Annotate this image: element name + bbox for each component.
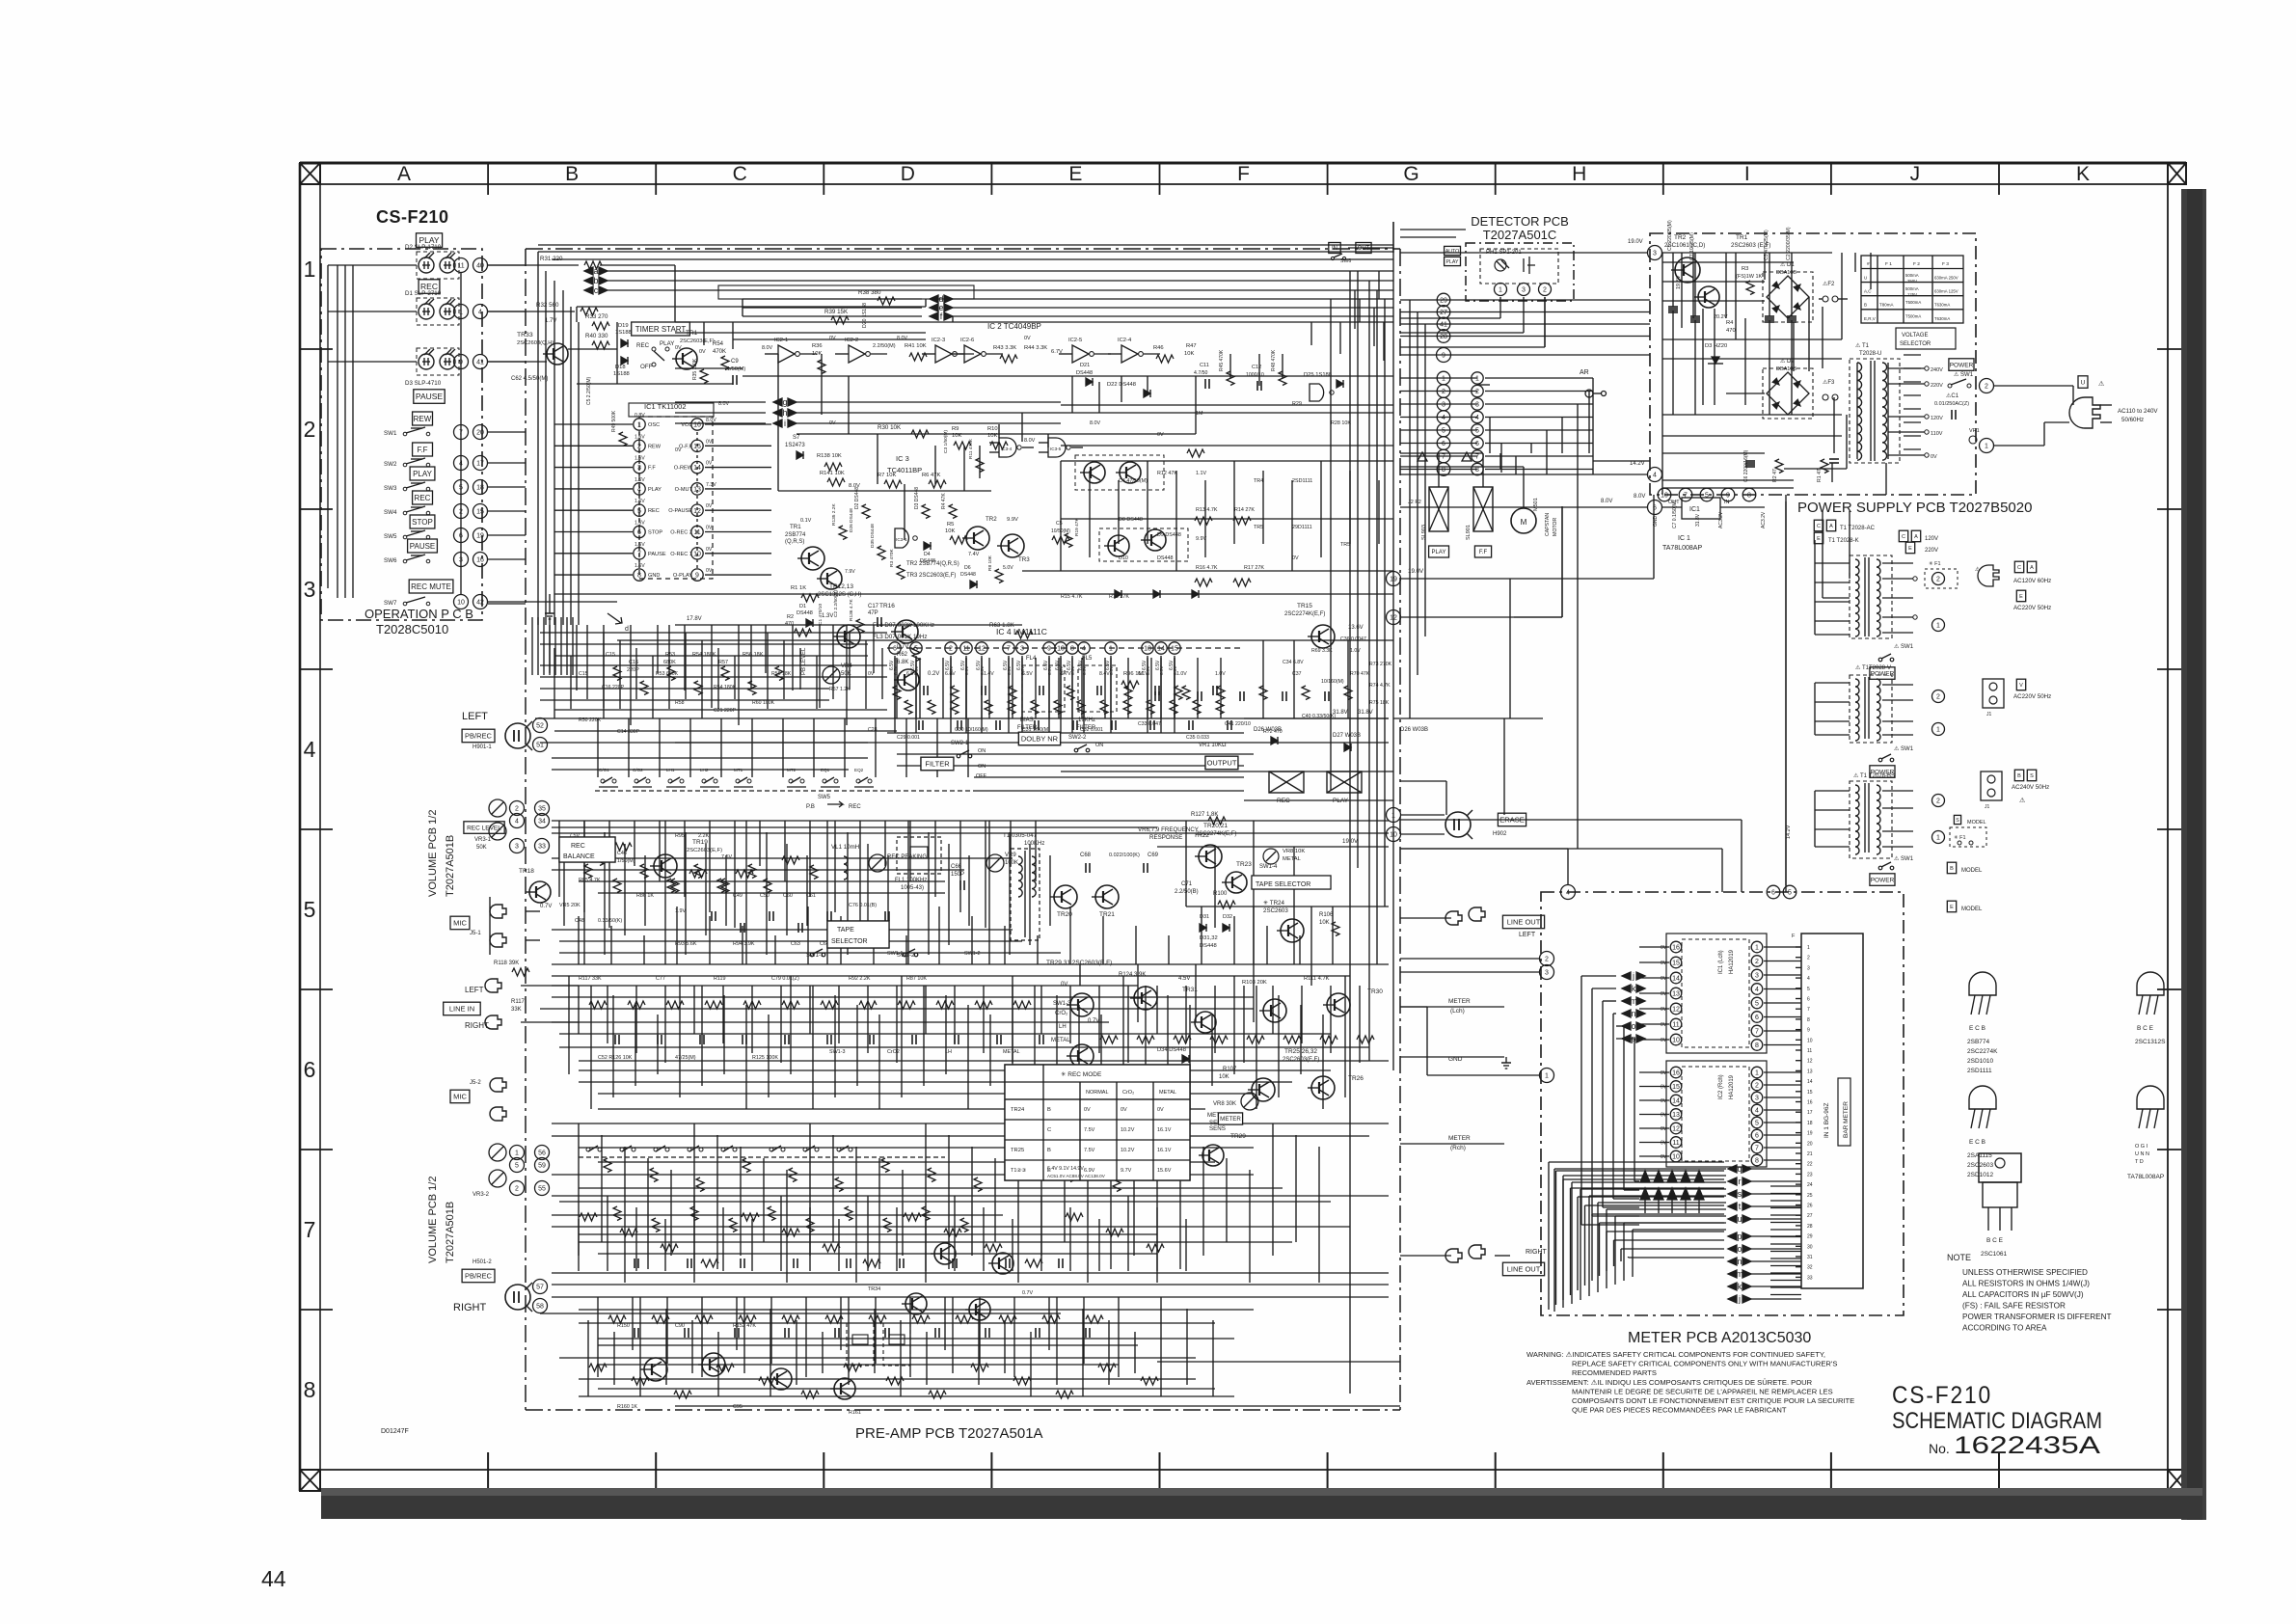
svg-text:R124 3.9K: R124 3.9K (1119, 972, 1146, 978)
svg-text:0V: 0V (829, 420, 836, 426)
svg-text:MODEL: MODEL (1961, 907, 1983, 912)
svg-text:R138 10K: R138 10K (817, 453, 842, 459)
svg-text:4.7/50: 4.7/50 (1194, 370, 1208, 376)
pin 42 (473, 595, 488, 609)
label TIMER START (632, 322, 690, 336)
region block B/S (1850, 781, 1892, 858)
svg-text:0V: 0V (1661, 1070, 1667, 1076)
svg-text:3: 3 (1475, 402, 1479, 409)
svg-text:R38 380: R38 380 (858, 289, 881, 296)
svg-text:C: C (2017, 565, 2021, 571)
center bus vertical wire (1392, 222, 1394, 1070)
svg-text:OFF: OFF (976, 773, 987, 779)
svg-text:41: 41 (476, 360, 484, 366)
svg-text:1622435A: 1622435A (1954, 1432, 2100, 1459)
svg-text:SW1-4: SW1-4 (1259, 864, 1278, 870)
svg-text:MT2: MT2 (787, 768, 797, 772)
pin 56 (535, 1146, 550, 1160)
svg-text:5: 5 (515, 1163, 519, 1170)
svg-text:TR3: TR3 (1018, 556, 1030, 563)
svg-text:2SC2603: 2SC2603 (1967, 1162, 1993, 1169)
left bias network resistors (613, 666, 621, 681)
wires at row4 right going to erase (1400, 780, 1446, 782)
svg-text:8.0V: 8.0V (718, 401, 729, 407)
svg-text:10K: 10K (812, 351, 822, 357)
row4 vertical drops to switch row (597, 718, 599, 777)
svg-text:0V: 0V (868, 671, 875, 677)
svg-text:STOP: STOP (648, 530, 662, 536)
power supply extra verticals (1692, 253, 1694, 318)
svg-text:T2028-V: T2028-V (1869, 665, 1891, 671)
svg-text:16.1V: 16.1V (1157, 1148, 1172, 1153)
svg-text:QUE PAR DES PIECES RECOMMA: QUE PAR DES PIECES RECOMMANDÉES PAR LE F… (1572, 1406, 1787, 1415)
wire verticals logic right (1060, 461, 1062, 571)
svg-text:T2027A501B: T2027A501B (445, 1202, 456, 1263)
svg-text:TR5: TR5 (1340, 542, 1350, 548)
long verticals at preamp right (1349, 271, 1351, 1394)
svg-text:R16 4.7K: R16 4.7K (1196, 565, 1218, 571)
svg-text:10: 10 (1661, 493, 1668, 500)
DOLBY NR redraw (1018, 732, 1060, 745)
svg-text:6.5V: 6.5V (1070, 665, 1075, 675)
svg-text:11: 11 (1672, 1022, 1679, 1029)
svg-text:SW4: SW4 (384, 509, 397, 516)
svg-text:CS-F210: CS-F210 (376, 207, 449, 227)
pin 57 (533, 1280, 548, 1294)
svg-text:C7 10/25(M): C7 10/25(M) (1689, 232, 1695, 260)
svg-text:11: 11 (1807, 1048, 1812, 1054)
svg-text:1: 1 (637, 422, 641, 429)
svg-text:⚠C1: ⚠C1 (1946, 392, 1959, 399)
svg-text:E: E (1068, 163, 1082, 185)
svg-text:R4: R4 (1726, 320, 1734, 326)
svg-text:DETECTOR PCB: DETECTOR PCB (1471, 214, 1569, 229)
svg-text:D26 W03B: D26 W03B (1400, 727, 1428, 733)
svg-text:⚠ T1: ⚠ T1 (1855, 664, 1870, 671)
svg-text:C/O2: C/O2 (633, 768, 643, 772)
svg-text:POWER SUPPLY PCB T2027B502: POWER SUPPLY PCB T2027B5020 (1797, 500, 2032, 516)
svg-text:V: V (2019, 683, 2023, 689)
svg-text:10: 10 (1672, 1038, 1680, 1044)
grid row divider tick left (300, 1149, 333, 1150)
svg-text:TR2 2SB774(Q,R,S): TR2 2SB774(Q,R,S) (906, 561, 959, 567)
pin 1 (454, 305, 469, 319)
svg-text:R40 330: R40 330 (585, 333, 608, 339)
pre-amp outline top edge (526, 248, 1400, 250)
svg-text:0.7V: 0.7V (897, 644, 908, 650)
power supply cap hatch marks (1668, 308, 1678, 310)
svg-text:AUTO: AUTO (1445, 249, 1459, 255)
row4 strip extra mesh (552, 832, 1389, 834)
svg-text:R49 500K: R49 500K (611, 410, 617, 432)
wire IC4 mid rail (887, 732, 1244, 734)
svg-text:TR3 2SC2603(E,F): TR3 2SC2603(E,F) (906, 573, 956, 579)
svg-text:31.8V: 31.8V (1358, 710, 1373, 716)
svg-text:2: 2 (1807, 956, 1810, 961)
svg-text:D34 DS448: D34 DS448 (1157, 1047, 1186, 1053)
svg-text:0V: 0V (706, 503, 713, 509)
IC3-4 IC3-5 nand gates (999, 438, 1016, 457)
svg-text:j: j (1632, 971, 1634, 981)
svg-text:H901-1: H901-1 (473, 744, 492, 750)
svg-text:SW1-2: SW1-2 (964, 951, 980, 957)
svg-text:6: 6 (1475, 441, 1479, 447)
grid row divider tick left (300, 348, 333, 350)
svg-text:TR29,31 2SC2603(E,F): TR29,31 2SC2603(E,F) (1046, 960, 1112, 966)
center bus pins 19 12 (1387, 572, 1401, 586)
svg-text:CAPSTAN: CAPSTAN (1545, 513, 1551, 536)
svg-text:B: B (1950, 866, 1954, 872)
svg-text:10K: 10K (1184, 351, 1194, 357)
svg-text:R32 560: R32 560 (536, 302, 559, 309)
svg-text:REC: REC (415, 494, 431, 502)
TR22 TR23 right (1199, 845, 1222, 868)
signal arrows g h i (773, 398, 782, 406)
wire meter top link (1567, 849, 1569, 885)
wire R32 560 from pin 4 (488, 311, 575, 312)
svg-text:IC 1: IC 1 (1678, 535, 1690, 542)
LED pair D2 (417, 252, 459, 279)
svg-text:MODEL: MODEL (1967, 820, 1986, 826)
svg-text:6: 6 (1755, 1133, 1759, 1140)
svg-text:1: 1 (1109, 646, 1113, 653)
svg-text:TR24: TR24 (1011, 1107, 1025, 1113)
svg-text:29: 29 (1807, 1234, 1813, 1240)
svg-text:2SB774: 2SB774 (785, 532, 806, 538)
svg-text:R70 47K: R70 47K (1350, 671, 1370, 677)
svg-text:AVERTISSEMENT: ⚠IL INDIQU LES: AVERTISSEMENT: ⚠IL INDIQU LES COMPOSANTS… (1526, 1378, 1813, 1387)
svg-text:1: 1 (1545, 1073, 1549, 1080)
svg-text:C48: C48 (575, 918, 584, 924)
svg-text:O-PAUSE: O-PAUSE (668, 508, 692, 514)
svg-text:2.2/50(M): 2.2/50(M) (873, 343, 896, 349)
svg-text:5: 5 (1475, 428, 1479, 435)
pin 52 (533, 718, 548, 733)
svg-text:12: 12 (1672, 1126, 1680, 1133)
svg-text:R33 270: R33 270 (585, 313, 608, 320)
svg-text:6.5V: 6.5V (1109, 665, 1114, 675)
svg-text:0V: 0V (1157, 432, 1164, 438)
svg-text:5: 5 (1705, 493, 1709, 500)
svg-text:10: 10 (1057, 646, 1065, 653)
IC2 inverter gates row (778, 345, 795, 363)
svg-text:10.2V: 10.2V (1121, 1148, 1135, 1153)
grid column divider tick top (1662, 163, 1664, 195)
svg-text:VR6,7,9 FREQUENCY: VR6,7,9 FREQUENCY (1138, 826, 1199, 833)
svg-text:PLAY: PLAY (1446, 259, 1459, 265)
pushbutton switch SW2 F.F (413, 443, 433, 456)
svg-text:R54 180K: R54 180K (692, 652, 716, 658)
row7 rails (552, 1195, 1389, 1197)
svg-text:4: 4 (1755, 1108, 1759, 1115)
svg-text:o: o (1631, 1021, 1635, 1031)
svg-text:6: 6 (304, 1057, 316, 1082)
svg-text:⚠: ⚠ (2098, 380, 2104, 388)
svg-text:T1②③: T1②③ (1011, 1167, 1026, 1174)
svg-text:120V: 120V (1925, 536, 1938, 542)
wire links preamp to power supply (1485, 377, 1593, 379)
wire row6 rails (552, 985, 1138, 987)
svg-text:7: 7 (1475, 454, 1479, 461)
pushbutton switch SW5 STOP (410, 515, 435, 528)
svg-text:PLAY: PLAY (413, 470, 433, 478)
meter pins 2 3 (1540, 952, 1554, 966)
svg-text:F 3: F 3 (1942, 261, 1949, 267)
svg-text:C15: C15 (606, 652, 615, 658)
svg-text:R73 270K: R73 270K (1369, 662, 1392, 667)
IC2 meter right pins (1751, 1067, 1763, 1078)
svg-text:T80mA: T80mA (1879, 303, 1894, 308)
svg-text:0.2V: 0.2V (928, 671, 939, 677)
grid column divider tick top (1495, 163, 1497, 195)
svg-text:42: 42 (476, 600, 484, 607)
VOLTAGE SELECTOR box (1896, 328, 1956, 349)
svg-text:C2 2200/35(M): C2 2200/35(M) (1786, 227, 1792, 260)
svg-text:SW1: SW1 (384, 430, 397, 437)
svg-text:AC51.0V AC88.0V AC138.0V: AC51.0V AC88.0V AC138.0V (1047, 1174, 1106, 1178)
svg-text:0V: 0V (1061, 982, 1067, 988)
wire 31.8V line (1244, 717, 1389, 719)
wire 8.0V to power pin 6 (1400, 506, 1647, 508)
svg-text:7.4V: 7.4V (968, 552, 980, 557)
svg-text:7: 7 (1684, 493, 1688, 500)
svg-text:CS-F210: CS-F210 (1892, 1382, 1992, 1409)
svg-text:d: d (625, 626, 629, 633)
svg-text:B: B (1864, 303, 1867, 308)
svg-text:B: B (565, 163, 579, 185)
transistor TR3 (1001, 534, 1024, 557)
svg-text:IC1 (Lch): IC1 (Lch) (1718, 950, 1724, 974)
svg-text:METER PCB A2013C5030: METER PCB A2013C5030 (1628, 1330, 1811, 1346)
svg-text:M: M (1521, 518, 1527, 527)
svg-text:TR18: TR18 (519, 868, 534, 875)
wire row5 top rail (552, 820, 1389, 822)
legend transistor 2SC1312S (2137, 972, 2164, 995)
svg-text:SW7: SW7 (384, 600, 397, 607)
region block C/A labels (1814, 520, 1823, 531)
svg-text:7: 7 (1755, 1146, 1759, 1152)
svg-text:30: 30 (1807, 1244, 1813, 1250)
OUTPUT redraw (1205, 756, 1238, 770)
svg-text:6.7V: 6.7V (1061, 671, 1071, 677)
svg-text:D3 HZ20: D3 HZ20 (1705, 343, 1727, 349)
corner registration mark top-right (2168, 163, 2186, 184)
svg-text:0V: 0V (706, 461, 713, 467)
svg-text:D01247F: D01247F (381, 1428, 409, 1435)
meter arrows column extra (1640, 1188, 1650, 1200)
svg-text:R111 4.7K: R111 4.7K (1304, 976, 1330, 982)
svg-text:G: G (1403, 163, 1418, 185)
region CA plug pins (1932, 573, 1945, 585)
LED pair D1 (417, 298, 459, 325)
svg-text:FL3 D07-001K 19Hz: FL3 D07-001K 19Hz (873, 634, 927, 640)
detector pins 1 3 2 (1495, 284, 1507, 296)
region CA plug symbol (1978, 565, 1999, 586)
svg-text:C28: C28 (868, 727, 878, 733)
IC1 meter right pins (1751, 941, 1763, 953)
svg-text:4: 4 (1807, 976, 1810, 982)
IC4 extra pin drops (894, 658, 896, 718)
svg-text:2SC2274K(E,F): 2SC2274K(E,F) (1284, 611, 1325, 617)
svg-text:TR34: TR34 (868, 1286, 880, 1292)
svg-text:J1: J1 (1985, 804, 1990, 810)
grid column divider tick top (1327, 163, 1329, 195)
row8 extra parts (589, 1364, 607, 1371)
svg-text:5: 5 (1755, 1001, 1759, 1008)
svg-text:6.7V: 6.7V (1051, 349, 1063, 355)
svg-text:28: 28 (1807, 1224, 1813, 1230)
svg-text:R44 3.3K: R44 3.3K (1024, 345, 1047, 351)
svg-text:9: 9 (1726, 493, 1730, 500)
wire IC4 bottom rail (675, 742, 1389, 744)
svg-text:470K: 470K (713, 349, 726, 355)
svg-text:150P: 150P (951, 872, 964, 878)
svg-text:H: H (1572, 163, 1586, 185)
svg-text:R161: R161 (849, 1410, 861, 1416)
svg-text:RECOMMENDED PARTS: RECOMMENDED PARTS (1572, 1368, 1657, 1377)
svg-text:A: A (1914, 534, 1918, 540)
svg-text:SW3: SW3 (384, 485, 397, 492)
svg-text:r: r (1739, 1177, 1742, 1186)
svg-text:q: q (1737, 1164, 1742, 1174)
svg-text:DS448: DS448 (1157, 555, 1173, 561)
svg-text:D1: D1 (799, 604, 806, 609)
region V primary feeds (1815, 682, 1850, 684)
svg-text:8.0V: 8.0V (897, 336, 907, 341)
svg-text:O-REC 1: O-REC 1 (670, 552, 692, 557)
svg-text:C21 220P: C21 220P (714, 708, 737, 714)
svg-text:R106: R106 (1319, 912, 1334, 918)
svg-text:U N N: U N N (2135, 1151, 2149, 1157)
svg-text:2: 2 (1543, 287, 1547, 294)
svg-text:METAL: METAL (1283, 856, 1302, 862)
region V connector J1 (1983, 679, 2004, 708)
svg-text:2: 2 (1936, 798, 1940, 805)
svg-text:I: I (1744, 163, 1750, 185)
svg-text:15.6V: 15.6V (1157, 1168, 1172, 1174)
svg-text:PLAY: PLAY (660, 340, 674, 347)
legend transistor 2SC1061 TO-220 (1979, 1153, 2021, 1182)
svg-text:1: 1 (1936, 623, 1940, 630)
grid column divider tick bottom (990, 1452, 992, 1488)
svg-text:6.8V: 6.8V (945, 671, 956, 677)
svg-text:PB/REC: PB/REC (465, 1272, 493, 1281)
svg-text:6: 6 (1755, 1015, 1759, 1021)
svg-text:C35 0.033: C35 0.033 (1186, 735, 1209, 741)
svg-text:2SC2603(E,F): 2SC2603(E,F) (687, 848, 722, 853)
svg-text:E: E (1817, 536, 1821, 542)
svg-text:1: 1 (515, 1150, 519, 1157)
right strip caps C33-C43 (1154, 691, 1156, 701)
meter lower arrows q r s t u (1728, 1165, 1737, 1173)
transformer taps (1888, 367, 1925, 369)
svg-text:DBA10B: DBA10B (1776, 270, 1796, 276)
row7 switch contact row (579, 1156, 945, 1158)
svg-text:MOTOR: MOTOR (1553, 518, 1558, 536)
svg-text:SW5: SW5 (384, 533, 397, 540)
svg-text:R60 100K: R60 100K (752, 700, 775, 706)
pin 4 (473, 305, 488, 319)
svg-text:VCC: VCC (681, 422, 692, 428)
FILTER redraw (921, 757, 954, 771)
pushbutton switch SW4 REC (413, 491, 433, 504)
svg-text:R127 1.8K: R127 1.8K (1191, 812, 1218, 818)
svg-text:IC3-5: IC3-5 (1050, 447, 1062, 451)
svg-text:B: B (1047, 1148, 1051, 1153)
POWER switch box (1949, 359, 1974, 371)
svg-text:R31 220: R31 220 (540, 256, 563, 262)
svg-text:TR5: TR5 (1254, 525, 1263, 530)
svg-text:R150: R150 (617, 1323, 630, 1329)
grid row divider tick right (2157, 988, 2181, 990)
svg-text:D3 DS448: D3 DS448 (914, 487, 920, 509)
svg-text:12: 12 (1390, 615, 1397, 622)
pin 18 (473, 480, 488, 495)
svg-text:J: J (1910, 163, 1921, 185)
wire row5 right rails (1157, 846, 1389, 848)
METER SENS VR redraw (1218, 1113, 1242, 1124)
IC1 meter left pins (1670, 941, 1682, 953)
svg-text:C: C (1817, 524, 1821, 529)
diode D18 1S188 (621, 357, 628, 365)
power supply transformer hatch (1904, 354, 1921, 356)
svg-text:C29 0.001: C29 0.001 (897, 735, 920, 741)
svg-text:16: 16 (1807, 1100, 1813, 1106)
svg-text:470: 470 (1726, 328, 1736, 334)
svg-text:ON: ON (978, 764, 986, 770)
wire left verticals from operation pcb (537, 252, 539, 625)
svg-text:R56 18K: R56 18K (743, 652, 764, 658)
wire rails logic right (1061, 460, 1393, 462)
wire long rails rows 3-4 (540, 664, 887, 666)
wire 8.0V rail upper (675, 321, 1393, 323)
svg-text:3: 3 (1653, 251, 1657, 257)
svg-text:⚠F2: ⚠F2 (1823, 281, 1835, 287)
wire timer block frame (577, 306, 926, 308)
svg-text:C69: C69 (1148, 853, 1159, 858)
row6 verticals (578, 986, 580, 1034)
pin 59 (535, 1158, 550, 1173)
svg-text:C5: C5 (1056, 521, 1063, 527)
grid row divider tick left (300, 988, 333, 990)
svg-text:⚠ T1: ⚠ T1 (1853, 772, 1868, 779)
svg-text:27: 27 (1440, 310, 1447, 316)
transistor TR2 (966, 527, 989, 550)
pin 35 (535, 801, 550, 816)
svg-text:35: 35 (538, 806, 546, 813)
svg-text:2SC1312S (G,H): 2SC1312S (G,H) (818, 592, 861, 598)
svg-text:18: 18 (1807, 1121, 1813, 1126)
svg-text:10K: 10K (1219, 1074, 1229, 1080)
svg-text:E: E (2019, 594, 2023, 600)
svg-text:IC 2 TC4049BP: IC 2 TC4049BP (987, 322, 1041, 331)
svg-text:4: 4 (1653, 473, 1657, 479)
svg-text:3: 3 (515, 844, 519, 851)
svg-text:D25 1S188: D25 1S188 (1304, 372, 1332, 378)
svg-text:8.0V: 8.0V (1601, 499, 1612, 504)
pin 5 (510, 1158, 525, 1173)
LED pair D3 (417, 348, 459, 375)
svg-text:PLAY: PLAY (648, 487, 662, 493)
svg-text:D21: D21 (1080, 363, 1090, 368)
svg-text:DS448: DS448 (797, 610, 813, 616)
wire meter link verticals (1721, 849, 1723, 892)
svg-text:TR2: TR2 (986, 516, 997, 523)
svg-text:ALL RESISTORS IN OHMS 1/4W(J): ALL RESISTORS IN OHMS 1/4W(J) (1962, 1280, 2090, 1288)
detector photo interrupter symbol (1495, 259, 1506, 271)
svg-text:1: 1 (1391, 813, 1395, 820)
svg-text:8: 8 (304, 1377, 316, 1402)
